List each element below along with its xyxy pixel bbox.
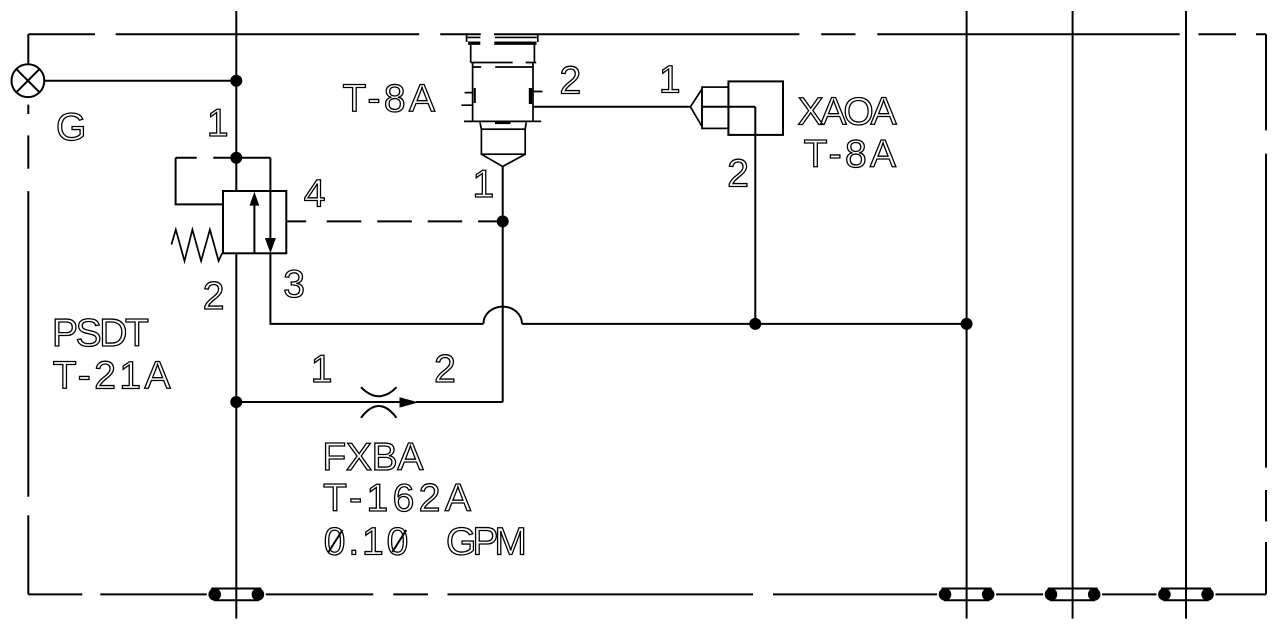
svg-text:T-162A: T-162A bbox=[323, 477, 475, 520]
svg-text:FXBA: FXBA bbox=[322, 436, 423, 479]
PSDT spring bbox=[171, 230, 222, 261]
wire gauge to node bbox=[44, 80, 236, 82]
FXBA wire from node to orifice bbox=[236, 401, 400, 403]
capsule C dots bbox=[1045, 588, 1058, 601]
wire main vertical lower (net 2) bbox=[235, 253, 237, 618]
svg-text:1: 1 bbox=[473, 163, 495, 206]
gauge G circle bbox=[12, 64, 45, 97]
XAOA big rect bbox=[728, 81, 783, 134]
svg-text:2: 2 bbox=[203, 275, 225, 318]
valve PSDT body box bbox=[223, 191, 286, 253]
XAOA port2 wire down bbox=[754, 107, 756, 324]
PSDT up-arrow head bbox=[250, 192, 260, 206]
FXBA arrow head bbox=[400, 397, 419, 407]
svg-text:1: 1 bbox=[659, 58, 681, 101]
valve PSDT down-arrow shaft bbox=[269, 158, 271, 241]
svg-text:T-21A: T-21A bbox=[53, 355, 174, 398]
bottom port capsule D bbox=[1161, 589, 1211, 601]
svg-text:2: 2 bbox=[560, 60, 582, 103]
cartridge stem / FXBA vertical wire bbox=[502, 167, 504, 403]
PSDT pilot line left leg bbox=[176, 158, 223, 205]
slashed zero marks bbox=[329, 530, 407, 552]
wire port3 to right vertical bbox=[522, 323, 967, 325]
svg-text:2: 2 bbox=[727, 152, 749, 195]
wire right vertical V3 bbox=[1185, 11, 1187, 619]
svg-text:2: 2 bbox=[434, 348, 456, 391]
border bottom (dashed) bbox=[28, 593, 1266, 595]
bottom port capsule B bbox=[942, 589, 992, 601]
wire main vertical upper (net 1) bbox=[235, 11, 237, 191]
capsule A dots bbox=[208, 588, 221, 601]
FXBA orifice bottom arc bbox=[361, 406, 397, 418]
XAOA wire port1 bbox=[533, 106, 690, 108]
svg-text:G: G bbox=[56, 106, 86, 149]
node dot pilot bbox=[230, 152, 242, 164]
cartridge nose cone bbox=[481, 154, 525, 166]
cartridge side ticks bbox=[461, 92, 542, 106]
svg-text:1: 1 bbox=[311, 348, 333, 391]
node dot right bbox=[961, 318, 973, 330]
cartridge nose rect bbox=[481, 129, 525, 154]
wire right vertical V1 bbox=[966, 11, 968, 619]
wire right vertical V2 bbox=[1072, 11, 1074, 619]
border top (dashed) bbox=[28, 33, 1266, 35]
svg-text:1: 1 bbox=[207, 102, 229, 145]
svg-text:4: 4 bbox=[304, 173, 326, 216]
svg-text:XAOA: XAOA bbox=[798, 91, 897, 134]
border right (dashed) bbox=[1265, 34, 1267, 594]
XAOA inner step bbox=[702, 106, 755, 108]
PSDT down-arrow head bbox=[265, 238, 276, 253]
svg-text:GPM: GPM bbox=[446, 520, 524, 563]
svg-text:T-8A: T-8A bbox=[343, 78, 439, 121]
bottom port capsule C bbox=[1048, 589, 1098, 601]
bottom port capsule A bbox=[211, 589, 261, 601]
FXBA wire arrow to corner bbox=[416, 401, 503, 403]
border left (dashed) bbox=[27, 34, 29, 594]
svg-text:PSDT: PSDT bbox=[52, 312, 148, 355]
cartridge inner bars bbox=[474, 88, 476, 103]
capsule B dots bbox=[939, 588, 952, 601]
svg-text:3: 3 bbox=[283, 263, 305, 306]
cartridge lower neck bbox=[480, 123, 526, 130]
cartridge neck bbox=[471, 45, 535, 63]
wire hop over stem bbox=[483, 307, 522, 324]
PSDT port4 dashed wire bbox=[287, 220, 503, 222]
XAOA triangle bbox=[690, 89, 702, 127]
node dot gauge bbox=[230, 75, 242, 87]
cartridge T-8A cap verticals bbox=[467, 34, 538, 42]
node dot XAOA2 bbox=[749, 318, 761, 330]
node dot port4 bbox=[497, 215, 509, 227]
cartridge flange bbox=[464, 120, 541, 122]
FXBA orifice top arc bbox=[361, 387, 397, 396]
gauge X cross bbox=[16, 69, 39, 92]
PSDT port3 wire down-right bbox=[270, 253, 483, 324]
cartridge thick top bar bbox=[468, 42, 536, 45]
valve PSDT up-arrow shaft bbox=[253, 204, 255, 253]
cartridge neck lines bbox=[471, 63, 537, 68]
svg-text:T-8A: T-8A bbox=[804, 133, 900, 176]
cartridge body bbox=[473, 63, 533, 123]
node dot FXBA bbox=[230, 396, 242, 408]
capsule D dots bbox=[1158, 588, 1171, 601]
PSDT pilot line dashed top bbox=[176, 157, 271, 159]
XAOA small rect bbox=[702, 87, 728, 128]
